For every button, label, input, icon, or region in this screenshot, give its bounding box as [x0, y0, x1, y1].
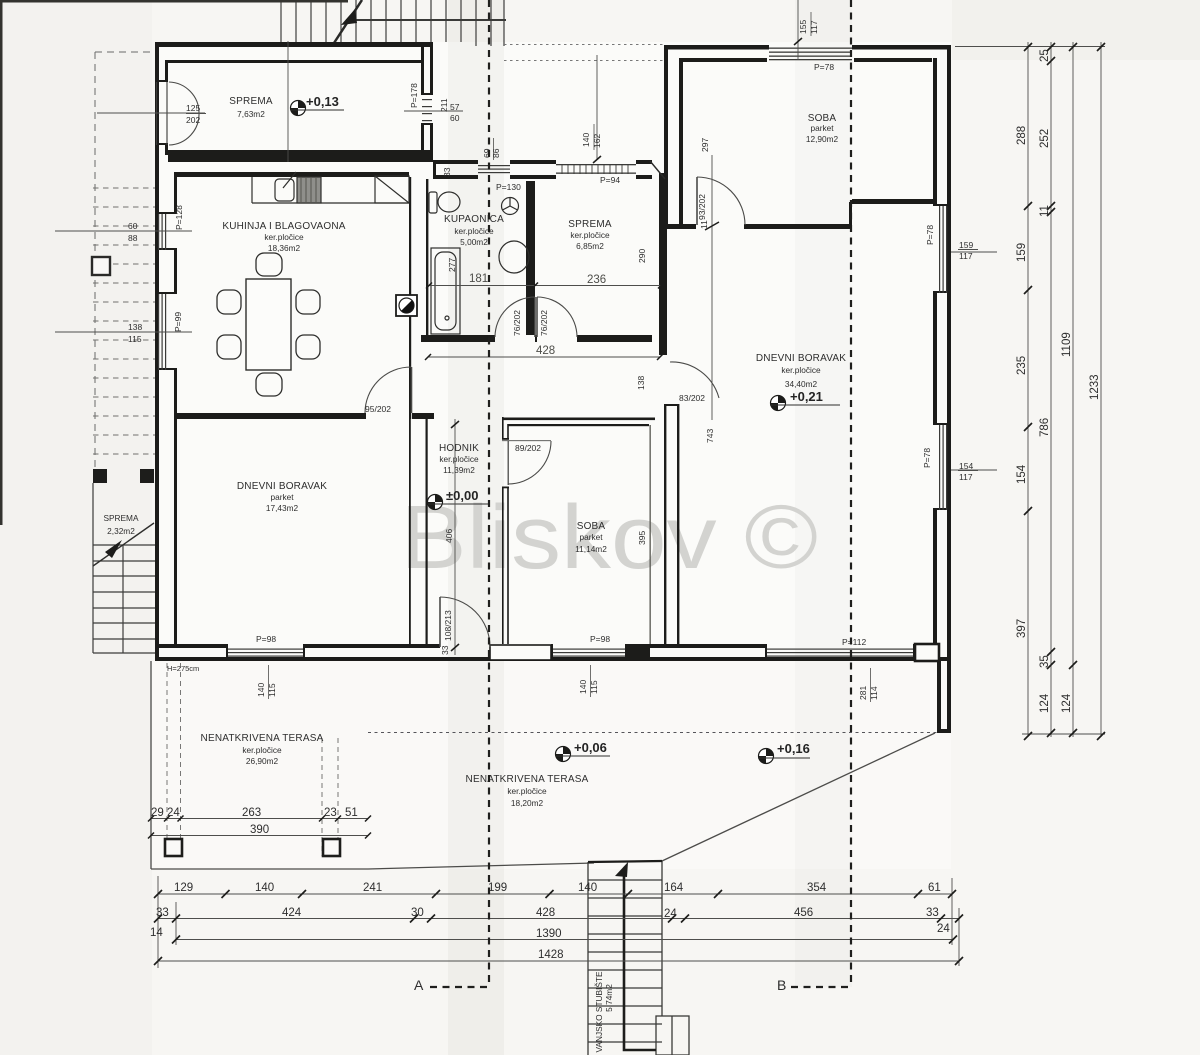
svg-text:428: 428: [536, 907, 555, 919]
svg-text:277: 277: [447, 258, 457, 272]
svg-text:125: 125: [186, 103, 200, 113]
svg-text:23: 23: [324, 807, 337, 819]
svg-text:parket: parket: [270, 492, 294, 502]
svg-text:140: 140: [255, 882, 274, 894]
svg-text:P=98: P=98: [256, 634, 276, 644]
svg-text:11,39m2: 11,39m2: [443, 465, 475, 475]
svg-text:140: 140: [581, 133, 591, 147]
svg-text:25: 25: [1039, 49, 1051, 62]
svg-text:26,90m2: 26,90m2: [246, 756, 279, 766]
svg-text:Bliskov ©: Bliskov ©: [400, 488, 818, 588]
svg-text:H=275cm: H=275cm: [167, 664, 199, 673]
svg-text:395: 395: [637, 531, 647, 545]
svg-text:155: 155: [798, 20, 808, 34]
svg-text:33: 33: [156, 907, 169, 919]
svg-text:236: 236: [587, 274, 606, 286]
svg-text:235: 235: [1016, 356, 1028, 375]
svg-text:1390: 1390: [536, 928, 562, 940]
svg-text:5,74m2: 5,74m2: [604, 984, 614, 1012]
svg-text:24: 24: [937, 923, 950, 935]
svg-text:297: 297: [700, 138, 710, 152]
svg-text:P=78: P=78: [925, 225, 935, 245]
svg-text:33: 33: [442, 167, 452, 177]
svg-text:199: 199: [488, 882, 507, 894]
svg-text:P=94: P=94: [600, 175, 620, 185]
svg-text:1428: 1428: [538, 949, 564, 961]
svg-text:ker.pločice: ker.pločice: [439, 454, 479, 464]
svg-text:18,20m2: 18,20m2: [511, 798, 544, 808]
svg-text:11,14m2: 11,14m2: [575, 544, 607, 554]
svg-text:138: 138: [128, 322, 142, 332]
svg-text:24: 24: [664, 908, 677, 920]
svg-text:P=99: P=99: [173, 312, 183, 332]
svg-text:VANJSKO STUBIŠTE: VANJSKO STUBIŠTE: [594, 971, 604, 1052]
svg-text:124: 124: [1061, 693, 1073, 713]
svg-text:93/202: 93/202: [697, 194, 707, 220]
svg-text:57: 57: [450, 102, 460, 112]
svg-text:390: 390: [250, 824, 269, 836]
svg-text:SPREMA: SPREMA: [568, 219, 612, 230]
svg-text:202: 202: [186, 115, 200, 125]
svg-text:115: 115: [128, 334, 142, 344]
svg-text:86: 86: [491, 148, 501, 158]
svg-text:154: 154: [959, 461, 973, 471]
svg-text:12,90m2: 12,90m2: [806, 134, 839, 144]
svg-text:ker.pločice: ker.pločice: [507, 786, 547, 796]
svg-text:241: 241: [363, 882, 382, 894]
svg-text:24: 24: [167, 807, 180, 819]
svg-text:117: 117: [809, 20, 819, 34]
svg-text:34,40m2: 34,40m2: [785, 379, 818, 389]
svg-text:parket: parket: [579, 532, 603, 542]
svg-text:P=130: P=130: [496, 182, 521, 192]
svg-text:DNEVNI BORAVAK: DNEVNI BORAVAK: [756, 353, 846, 364]
svg-text:6,85m2: 6,85m2: [576, 241, 604, 251]
svg-text:+0,13: +0,13: [306, 94, 339, 109]
svg-text:181: 181: [469, 273, 488, 285]
svg-text:162: 162: [592, 134, 602, 148]
svg-text:ker.pločice: ker.pločice: [264, 232, 304, 242]
svg-text:397: 397: [1016, 619, 1028, 638]
svg-text:B: B: [777, 977, 786, 993]
svg-text:743: 743: [705, 429, 715, 443]
svg-text:61: 61: [928, 882, 941, 894]
svg-text:252: 252: [1039, 129, 1051, 148]
svg-text:33: 33: [440, 645, 450, 655]
svg-text:786: 786: [1039, 418, 1051, 437]
svg-text:33: 33: [926, 907, 939, 919]
svg-text:+0,21: +0,21: [790, 389, 823, 404]
svg-text:60: 60: [450, 113, 460, 123]
svg-text:140: 140: [256, 683, 266, 697]
svg-text:+0,16: +0,16: [777, 741, 810, 756]
svg-text:154: 154: [1016, 464, 1028, 484]
svg-text:parket: parket: [810, 123, 834, 133]
svg-text:60: 60: [128, 221, 138, 231]
svg-text:88: 88: [128, 233, 138, 243]
svg-text:HODNIK: HODNIK: [439, 443, 479, 454]
svg-text:P=78: P=78: [922, 448, 932, 468]
svg-text:428: 428: [536, 345, 555, 357]
svg-text:354: 354: [807, 882, 827, 894]
svg-text:164: 164: [664, 882, 684, 894]
svg-text:129: 129: [174, 882, 193, 894]
svg-text:35: 35: [1039, 655, 1051, 668]
svg-text:288: 288: [1016, 126, 1028, 145]
svg-text:159: 159: [959, 240, 973, 250]
svg-text:7,63m2: 7,63m2: [237, 109, 265, 119]
svg-text:159: 159: [1016, 243, 1028, 262]
svg-text:SPREMA: SPREMA: [229, 96, 273, 107]
svg-text:95/202: 95/202: [365, 404, 391, 414]
svg-text:290: 290: [637, 249, 647, 263]
svg-text:76/202: 76/202: [512, 310, 522, 336]
svg-text:P=112: P=112: [842, 637, 866, 647]
svg-text:51: 51: [345, 807, 358, 819]
svg-text:2,32m2: 2,32m2: [107, 526, 135, 536]
svg-text:P=98: P=98: [590, 634, 610, 644]
svg-text:14: 14: [150, 927, 163, 939]
svg-text:456: 456: [794, 907, 813, 919]
svg-text:406: 406: [444, 529, 454, 543]
svg-text:DNEVNI BORAVAK: DNEVNI BORAVAK: [237, 481, 327, 492]
svg-text:11: 11: [699, 220, 709, 229]
svg-text:P=78: P=78: [814, 62, 834, 72]
svg-text:SPREMA: SPREMA: [103, 513, 139, 523]
svg-text:30: 30: [411, 907, 424, 919]
svg-text:18,36m2: 18,36m2: [268, 243, 301, 253]
svg-text:ker.pločice: ker.pločice: [242, 745, 282, 755]
svg-text:A: A: [414, 977, 424, 993]
svg-text:1109: 1109: [1061, 332, 1073, 357]
svg-text:+0,06: +0,06: [574, 740, 607, 755]
svg-text:281: 281: [858, 686, 868, 700]
svg-text:KUHINJA I BLAGOVAONA: KUHINJA I BLAGOVAONA: [222, 221, 345, 232]
svg-text:211: 211: [439, 98, 449, 112]
svg-text:76/202: 76/202: [539, 310, 549, 336]
svg-text:SOBA: SOBA: [577, 521, 606, 532]
svg-text:424: 424: [282, 907, 302, 919]
svg-text:115: 115: [267, 683, 277, 697]
svg-text:83/202: 83/202: [679, 393, 705, 403]
svg-text:NENATKRIVENA TERASA: NENATKRIVENA TERASA: [201, 733, 324, 744]
svg-text:140: 140: [578, 882, 597, 894]
svg-text:29: 29: [151, 807, 164, 819]
svg-text:17,43m2: 17,43m2: [266, 503, 299, 513]
svg-text:115: 115: [589, 680, 599, 694]
svg-text:140: 140: [578, 680, 588, 694]
svg-text:NENATKRIVENA TERASA: NENATKRIVENA TERASA: [466, 774, 589, 785]
svg-text:P=178: P=178: [409, 83, 419, 108]
svg-text:1233: 1233: [1089, 374, 1101, 400]
svg-text:89/202: 89/202: [515, 443, 541, 453]
svg-text:114: 114: [869, 686, 879, 700]
svg-text:ker.pločice: ker.pločice: [570, 230, 610, 240]
svg-text:KUPAONICA: KUPAONICA: [444, 214, 504, 225]
svg-text:108/213: 108/213: [443, 610, 453, 641]
svg-text:5,00m2: 5,00m2: [460, 237, 488, 247]
svg-text:ker.pločice: ker.pločice: [781, 365, 821, 375]
svg-text:263: 263: [242, 807, 261, 819]
svg-text:11: 11: [1039, 205, 1051, 217]
svg-text:124: 124: [1039, 693, 1051, 713]
svg-text:117: 117: [959, 251, 973, 261]
svg-text:±0,00: ±0,00: [446, 488, 478, 503]
svg-text:117: 117: [959, 472, 973, 482]
svg-text:138: 138: [636, 376, 646, 390]
svg-text:P=128: P=128: [174, 205, 184, 230]
